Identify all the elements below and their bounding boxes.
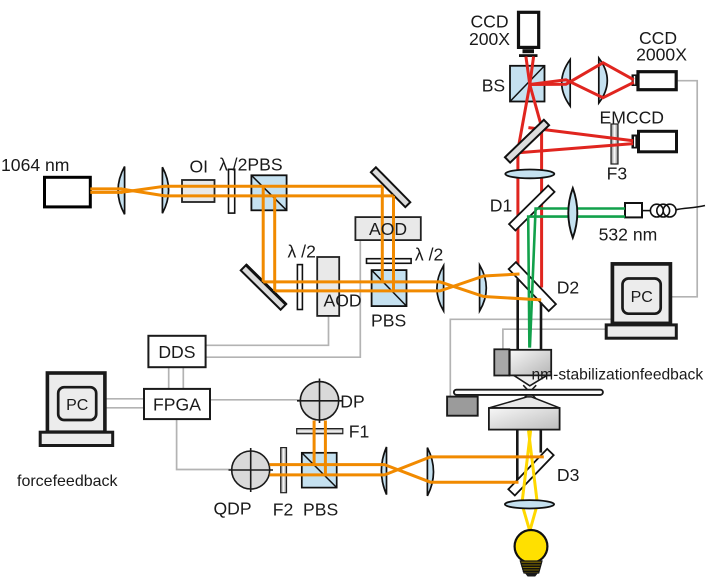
photodiode DP — [297, 379, 342, 424]
beam PBS3 to DP right — [324, 421, 327, 475]
beam M2 to D2 lower — [275, 274, 520, 291]
lens L2 — [162, 167, 168, 213]
beam M1 down right — [392, 196, 395, 291]
FPGA box — [144, 389, 210, 419]
focus crossing — [523, 385, 536, 399]
beam M1 down left — [381, 186, 384, 282]
wire PC-left to FPGA — [105, 399, 144, 408]
PBS2 cube — [372, 270, 407, 306]
camera CCD 2000X — [632, 72, 677, 90]
red beam mirror to EMCCD a — [528, 128, 633, 141]
mirror M2 — [241, 265, 286, 310]
mirror M1 — [371, 167, 410, 207]
wire PC-right to piezo — [503, 329, 606, 349]
beam QDP row upper — [270, 465, 519, 483]
laser 1064 nm — [45, 177, 91, 207]
photodiode QDP — [229, 448, 274, 492]
PBS1 cube — [251, 175, 286, 210]
svg-text:1064 nm: 1064 nm — [1, 155, 69, 175]
lens T2a — [437, 266, 444, 312]
beam M2 to D2 upper — [263, 282, 541, 300]
svg-text:F1: F1 — [349, 421, 370, 441]
lens 532 — [568, 188, 577, 238]
tube walls upper — [517, 279, 541, 482]
svg-text:F3: F3 — [607, 164, 628, 184]
filter F3 — [611, 124, 618, 164]
wire DDS to FPGA — [169, 367, 184, 389]
red beam BS to CCD2000X b — [530, 80, 634, 98]
ORANGE BEAMS — [90, 186, 544, 482]
tube lens (horizontal, below M3) — [505, 170, 554, 179]
AOD top — [355, 217, 420, 240]
svg-text:DP: DP — [340, 391, 364, 411]
svg-text:BS: BS — [482, 76, 505, 96]
svg-text:nm-stabilizationfeedback: nm-stabilizationfeedback — [532, 367, 704, 384]
PBS3 cube — [302, 453, 337, 488]
illumination lens — [505, 500, 554, 508]
piezo actuator — [494, 349, 509, 375]
DDS box — [148, 336, 205, 367]
red beam BS to CCD200X a — [526, 57, 530, 85]
tube wall left lower — [516, 430, 519, 482]
svg-text:PBS: PBS — [371, 311, 406, 331]
light bulb — [515, 530, 548, 577]
wire DDS to AOD top — [206, 240, 361, 357]
red beam BS to CCD200X b — [530, 57, 534, 85]
tube wall left upper — [516, 279, 519, 350]
lens T2b — [480, 265, 487, 311]
svg-text:QDP: QDP — [214, 499, 252, 519]
objective body — [510, 350, 552, 376]
svg-text:λ /2: λ /2 — [288, 242, 316, 262]
objective cone — [514, 375, 547, 385]
filter F2 — [281, 448, 287, 493]
waveplate lambda/2 first — [229, 169, 235, 213]
svg-text:D1: D1 — [490, 196, 513, 216]
svg-text:AOD: AOD — [324, 291, 362, 311]
yellow beam left — [522, 431, 531, 538]
svg-text:λ /2PBS: λ /2PBS — [219, 155, 283, 175]
lens T3b — [427, 448, 433, 496]
tube wall right lower — [539, 430, 542, 453]
green beam top — [530, 209, 625, 348]
RED BEAMS — [518, 57, 634, 288]
beam lower horizontal to M1 — [164, 194, 394, 197]
tube wall right upper — [540, 303, 543, 350]
PC left monitor — [40, 373, 113, 446]
position detector box — [447, 397, 478, 416]
lens L1 — [118, 167, 125, 215]
wire DDS to AOD bottom — [206, 316, 329, 345]
mirror M3 (below BS) — [505, 120, 549, 163]
svg-text:DDS: DDS — [158, 342, 195, 362]
beam QDP row lower — [270, 457, 544, 475]
beam PBS1 down left — [262, 186, 265, 282]
beam laser to L1 top — [90, 187, 122, 190]
svg-text:532 nm: 532 nm — [599, 225, 658, 245]
lens T3a — [381, 447, 386, 495]
GREEN BEAMS — [528, 209, 625, 348]
red beam mirror to EMCCD b — [518, 144, 633, 153]
camera CCD 200X — [519, 12, 539, 57]
svg-text:2000X: 2000X — [636, 44, 687, 64]
svg-text:FPGA: FPGA — [153, 394, 201, 414]
wire CCD2000X to PC-right — [671, 81, 697, 297]
svg-text:OI: OI — [190, 157, 209, 177]
dichroic D2 — [509, 262, 556, 311]
condenser body — [489, 408, 560, 430]
svg-text:λ /2: λ /2 — [415, 244, 443, 264]
green beam bottom — [528, 217, 625, 348]
beam PBS1 down right — [273, 196, 276, 291]
camera EMCCD — [632, 131, 677, 152]
wire stage detector to PC-right — [450, 319, 611, 396]
dichroic D1 — [509, 185, 554, 230]
red beam down right — [530, 85, 542, 288]
red beam BS to CCD2000X a — [530, 63, 634, 85]
dichroic D3 — [508, 449, 553, 496]
red beam down left — [518, 85, 530, 266]
beam L1 to L2 cross a — [121, 189, 165, 196]
wire FPGA to QDP — [177, 419, 232, 469]
svg-text:AOD: AOD — [369, 219, 407, 239]
yellow beam right — [529, 431, 538, 538]
fiber coil — [642, 204, 705, 217]
AOD bottom — [317, 257, 339, 316]
svg-text:PBS: PBS — [303, 500, 338, 520]
svg-text:D2: D2 — [557, 278, 580, 298]
waveplate lambda/2 second — [297, 265, 302, 310]
YELLOW BEAMS — [522, 431, 538, 538]
svg-text:F2: F2 — [273, 500, 294, 520]
lens relay 1 (to CCD 2000X) — [562, 60, 571, 107]
condenser top — [489, 397, 560, 408]
optical isolator OI — [182, 180, 215, 202]
wire FPGA to DP — [210, 399, 300, 401]
beam L1 to L2 cross b — [121, 186, 165, 192]
svg-text:PC: PC — [66, 397, 88, 414]
svg-text:PC: PC — [631, 289, 653, 306]
beam upper horizontal to M1 — [164, 185, 382, 188]
filter F1 — [297, 429, 343, 434]
svg-text:EMCCD: EMCCD — [600, 108, 665, 128]
beam PBS3 to DP left — [313, 421, 316, 465]
svg-text:D3: D3 — [557, 465, 580, 485]
sample stage — [454, 390, 603, 395]
532 nm laser box — [625, 203, 642, 217]
beam laser to L1 bottom — [90, 191, 122, 194]
PC right monitor — [606, 264, 676, 338]
BS cube — [510, 66, 545, 102]
svg-text:forcefeedback: forcefeedback — [17, 473, 119, 490]
svg-text:200X: 200X — [469, 29, 510, 49]
lens relay 2 (to CCD 2000X) — [599, 58, 608, 103]
waveplate lambda/2 horizontal — [367, 259, 412, 264]
